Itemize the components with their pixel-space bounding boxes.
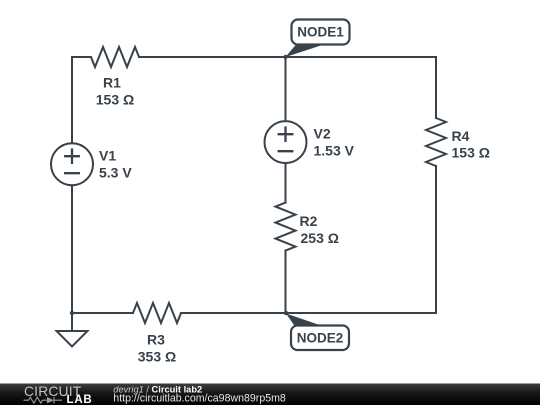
voltage source V1 bbox=[51, 143, 93, 185]
svg-text:1.53 V: 1.53 V bbox=[314, 143, 355, 159]
svg-text:R1: R1 bbox=[103, 75, 121, 91]
node NODE2 junction dot bbox=[284, 311, 288, 315]
svg-text:R2: R2 bbox=[300, 213, 318, 229]
node NODE1 flag bbox=[286, 20, 350, 58]
wire left vertical lower (V1 to bottom) bbox=[71, 185, 73, 313]
svg-text:V2: V2 bbox=[314, 126, 331, 142]
svg-text:V1: V1 bbox=[99, 148, 116, 164]
footer bar bbox=[0, 384, 540, 405]
wire right vertical upper (to R4) bbox=[435, 57, 437, 118]
wire R2 to bottom bbox=[285, 251, 287, 313]
wire bottom-left segment bbox=[72, 312, 133, 314]
wire bottom segment R3 to right corner bbox=[181, 312, 436, 314]
logo schematic squiggle with diode bbox=[24, 397, 63, 403]
wire left vertical upper (to V1) bbox=[71, 57, 73, 143]
resistor R3 bbox=[133, 303, 181, 323]
svg-text:153 Ω: 153 Ω bbox=[96, 91, 134, 107]
svg-text:LAB: LAB bbox=[67, 394, 93, 405]
svg-text:253 Ω: 253 Ω bbox=[301, 230, 339, 246]
wire middle vertical upper (to V2) bbox=[285, 57, 287, 121]
svg-text:NODE1: NODE1 bbox=[297, 25, 344, 40]
svg-text:5.3 V: 5.3 V bbox=[99, 165, 132, 181]
resistor R1 bbox=[91, 47, 139, 67]
voltage source V2 bbox=[265, 121, 307, 163]
svg-text:NODE2: NODE2 bbox=[297, 330, 344, 345]
ground stub wire bbox=[71, 313, 73, 331]
svg-text:http://circuitlab.com/ca98wn89: http://circuitlab.com/ca98wn89rp5m8 bbox=[113, 393, 286, 405]
node NODE2 flag bbox=[286, 314, 349, 351]
svg-text:153 Ω: 153 Ω bbox=[452, 144, 490, 160]
resistor R4 bbox=[426, 118, 446, 166]
wire top-left segment bbox=[72, 56, 91, 58]
wire right vertical lower (R4 to bottom) bbox=[435, 166, 437, 313]
svg-text:R4: R4 bbox=[452, 128, 470, 144]
wire V2 to R2 bbox=[285, 163, 287, 203]
svg-text:353 Ω: 353 Ω bbox=[138, 348, 176, 364]
ground symbol bbox=[57, 331, 88, 347]
resistor R2 bbox=[276, 203, 296, 251]
node NODE1 junction dot bbox=[283, 55, 287, 59]
junction node dot at ground bbox=[70, 311, 74, 315]
svg-text:R3: R3 bbox=[147, 332, 165, 348]
wire top segment R1 to right corner bbox=[139, 56, 436, 58]
